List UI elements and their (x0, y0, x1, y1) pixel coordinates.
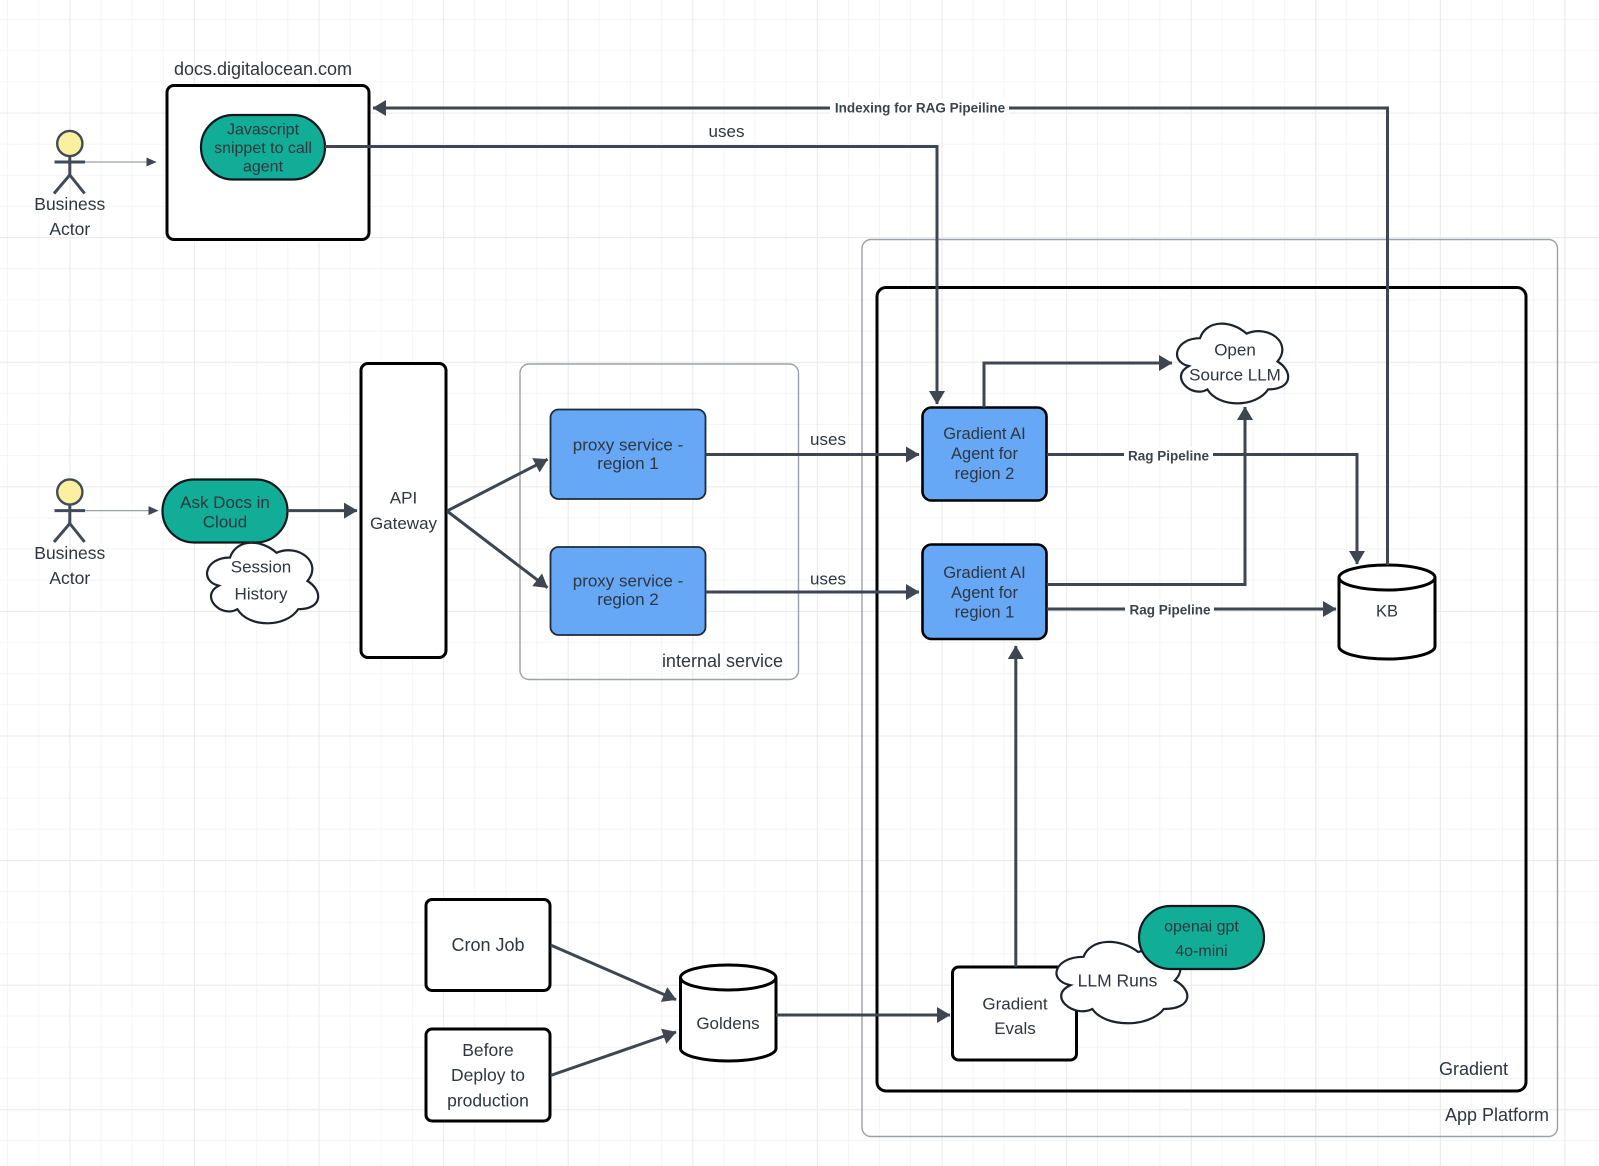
svg-text:Gradient: Gradient (1439, 1059, 1508, 1079)
svg-text:region 2: region 2 (597, 590, 658, 609)
svg-text:API: API (390, 489, 417, 508)
svg-text:agent: agent (243, 159, 284, 176)
svg-text:Goldens: Goldens (696, 1014, 759, 1033)
svg-text:Ask Docs in: Ask Docs in (180, 493, 270, 512)
svg-text:Actor: Actor (49, 219, 90, 239)
svg-text:Business: Business (34, 194, 105, 214)
svg-text:Cloud: Cloud (203, 513, 247, 532)
svg-text:Open: Open (1214, 341, 1256, 360)
svg-text:region 2: region 2 (955, 465, 1015, 483)
svg-text:proxy service -: proxy service - (573, 436, 684, 455)
svg-text:KB: KB (1376, 603, 1398, 621)
svg-text:Agent for: Agent for (951, 584, 1018, 602)
svg-text:Gradient AI: Gradient AI (943, 425, 1026, 443)
svg-text:docs.digitalocean.com: docs.digitalocean.com (174, 59, 352, 79)
svg-text:Deploy to: Deploy to (451, 1065, 525, 1085)
svg-text:History: History (235, 585, 288, 604)
svg-text:Agent for: Agent for (951, 445, 1018, 463)
svg-text:snippet to call: snippet to call (214, 140, 312, 157)
svg-text:Gateway: Gateway (370, 514, 438, 533)
svg-text:region 1: region 1 (955, 604, 1015, 622)
svg-text:Before: Before (462, 1040, 514, 1060)
svg-text:Gradient: Gradient (982, 995, 1047, 1014)
svg-text:Javascript: Javascript (227, 122, 300, 139)
svg-text:region 1: region 1 (597, 454, 658, 473)
svg-text:uses: uses (810, 570, 846, 589)
svg-text:Indexing for RAG Pipeiline: Indexing for RAG Pipeiline (835, 101, 1006, 116)
svg-text:Session: Session (231, 558, 291, 577)
svg-text:internal service: internal service (662, 651, 783, 671)
svg-text:Business: Business (34, 543, 105, 563)
svg-text:openai gpt: openai gpt (1164, 919, 1239, 936)
svg-text:Rag Pipeline: Rag Pipeline (1128, 449, 1210, 464)
svg-text:Rag Pipeline: Rag Pipeline (1129, 603, 1211, 618)
svg-text:Actor: Actor (49, 568, 90, 588)
svg-text:uses: uses (709, 122, 745, 141)
svg-text:Evals: Evals (994, 1019, 1036, 1038)
svg-text:4o-mini: 4o-mini (1175, 943, 1227, 960)
svg-text:uses: uses (810, 430, 846, 449)
svg-text:production: production (447, 1091, 529, 1111)
svg-text:Source LLM: Source LLM (1189, 366, 1281, 385)
svg-text:Cron Job: Cron Job (451, 935, 524, 955)
svg-text:LLM Runs: LLM Runs (1078, 971, 1158, 991)
svg-text:App Platform: App Platform (1445, 1105, 1549, 1125)
svg-text:Gradient AI: Gradient AI (943, 564, 1026, 582)
svg-text:proxy service -: proxy service - (573, 572, 684, 591)
